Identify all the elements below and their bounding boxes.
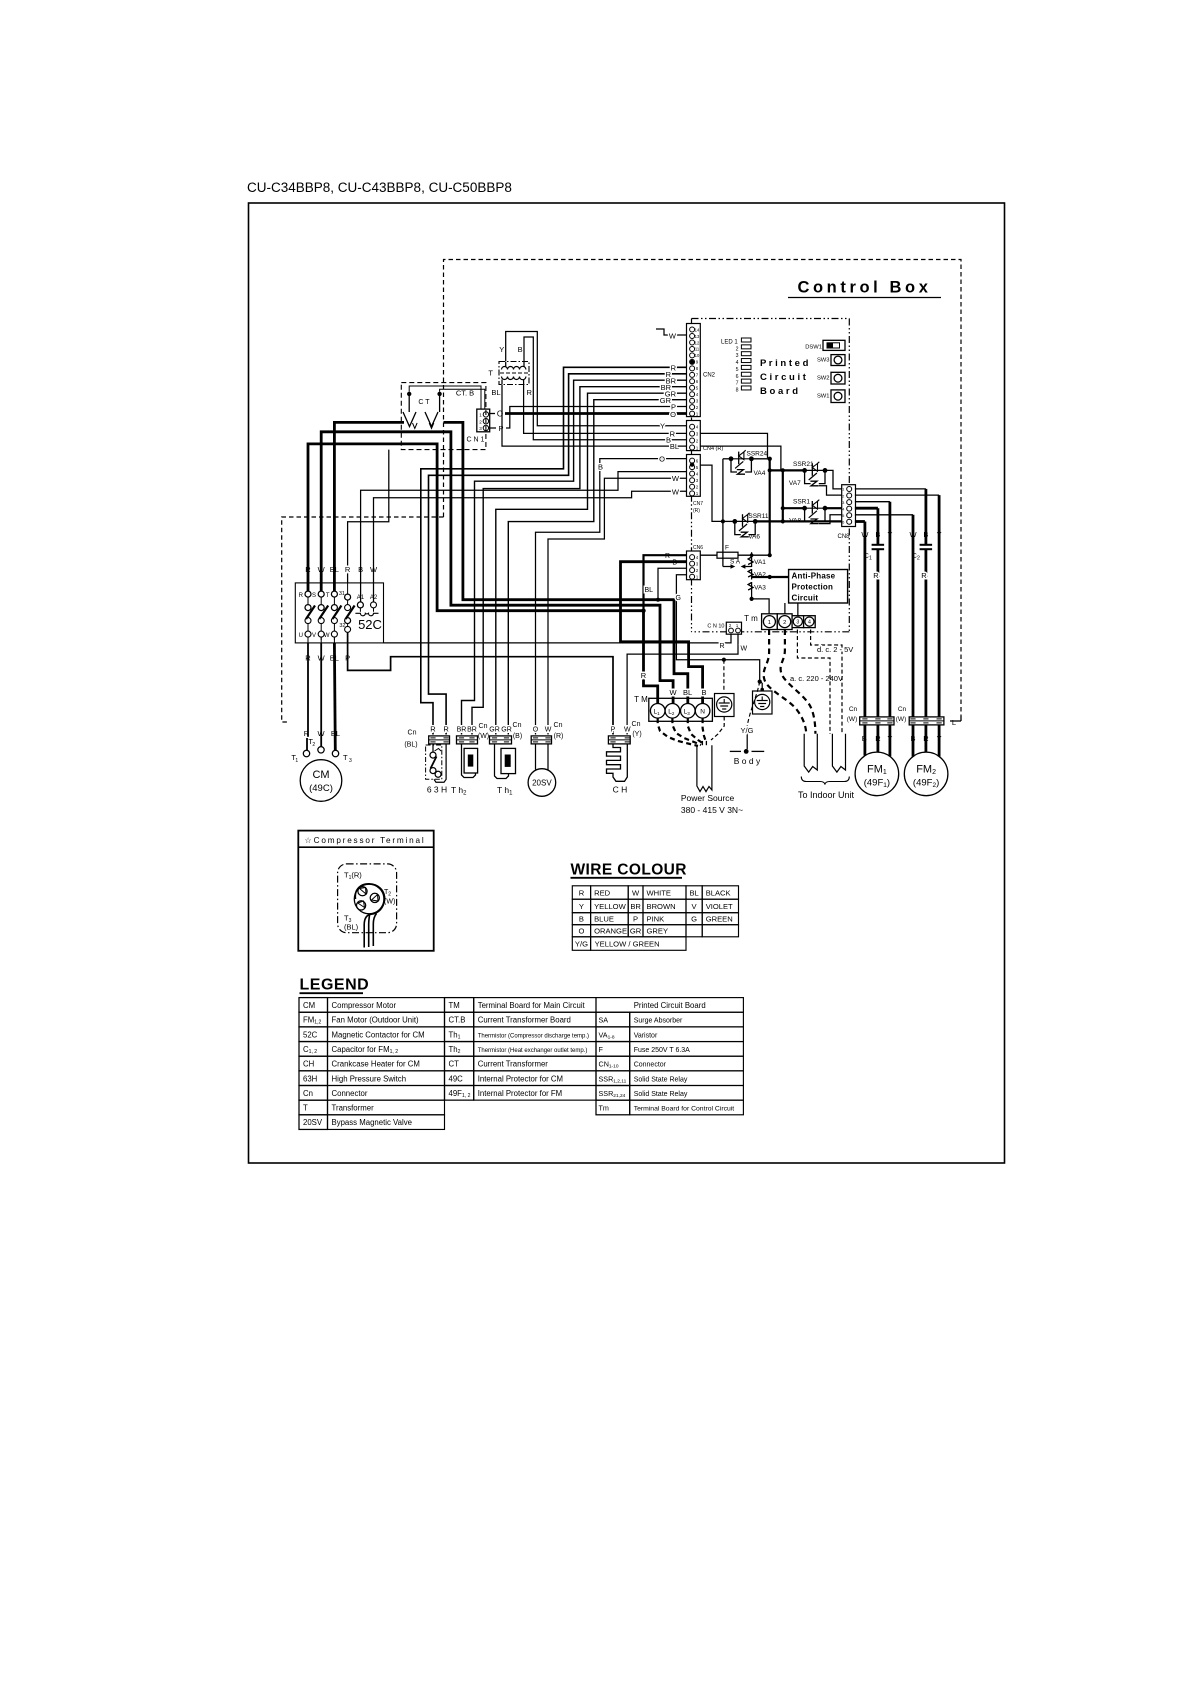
compressor motor CM bbox=[291, 737, 352, 801]
wire B1 upper bbox=[877, 508, 880, 545]
wire CN7 pin5 to SSR11 bbox=[700, 465, 725, 523]
52C bottom wire labels bbox=[305, 654, 350, 663]
svg-text:(W): (W) bbox=[384, 899, 395, 906]
svg-text:VIOLET: VIOLET bbox=[706, 902, 733, 911]
svg-text:T m: T m bbox=[744, 614, 758, 623]
svg-text:W: W bbox=[324, 633, 330, 639]
svg-text:B o a r d: B o a r d bbox=[760, 386, 798, 397]
varistor VA2 bbox=[748, 569, 766, 580]
wire SSR1 varistor to CN8 pin5 bbox=[819, 515, 842, 524]
svg-text:7: 7 bbox=[736, 381, 739, 387]
svg-text:B: B bbox=[598, 462, 603, 471]
wire BR CN2 pin6 to Th2 bbox=[462, 377, 687, 735]
svg-text:ORANGE: ORANGE bbox=[594, 927, 627, 936]
wire CN4 pin1 to SSR bus2 bbox=[700, 446, 781, 470]
svg-text:W: W bbox=[741, 646, 748, 653]
svg-text:GR: GR bbox=[501, 727, 512, 734]
body earth symbol bbox=[730, 749, 764, 766]
wire B2 upper bbox=[925, 489, 928, 545]
svg-text:Y: Y bbox=[499, 345, 504, 354]
wire 52C U to CM T1 bbox=[307, 637, 308, 750]
svg-text:To Indoor Unit: To Indoor Unit bbox=[798, 790, 855, 800]
svg-text:BR: BR bbox=[467, 727, 477, 734]
wire B1 lower R bbox=[873, 549, 879, 717]
wire CN8 pin3 to FM1 Y bbox=[855, 501, 890, 503]
svg-text:20SV: 20SV bbox=[532, 779, 552, 788]
svg-text:V: V bbox=[312, 633, 316, 639]
svg-text:31: 31 bbox=[339, 591, 345, 597]
svg-text:O: O bbox=[533, 727, 539, 734]
svg-text:6: 6 bbox=[736, 374, 739, 380]
svg-text:3: 3 bbox=[349, 758, 352, 764]
svg-text:☆Compressor Terminal: ☆Compressor Terminal bbox=[305, 836, 426, 845]
svg-text:R: R bbox=[665, 553, 670, 560]
wire O CN7 pin6 to 20SV bbox=[536, 455, 687, 735]
svg-text:C N 10: C N 10 bbox=[707, 624, 724, 630]
wire R branch to CN6 pin4 bbox=[641, 555, 686, 613]
svg-text:SSR1: SSR1 bbox=[793, 499, 810, 506]
wire bus to SSR21 bbox=[770, 469, 805, 471]
power source dashed leads bbox=[658, 717, 725, 747]
svg-text:8: 8 bbox=[736, 387, 739, 393]
svg-text:F: F bbox=[725, 545, 729, 552]
wire CN8 pin2 to FM2 Y bbox=[855, 494, 939, 496]
svg-text:Cn: Cn bbox=[554, 722, 563, 729]
svg-text:SW2: SW2 bbox=[817, 376, 830, 382]
svg-text:GREY: GREY bbox=[647, 927, 669, 936]
svg-text:(R): (R) bbox=[693, 508, 700, 514]
svg-text:Terminal Board for Control Cir: Terminal Board for Control Circuit bbox=[634, 1106, 735, 1113]
svg-text:CN2: CN2 bbox=[703, 373, 716, 379]
solid state relay SSR21 with varistor VA7 bbox=[789, 461, 827, 487]
svg-text:W: W bbox=[624, 727, 631, 734]
svg-text:High Pressure Switch: High Pressure Switch bbox=[332, 1074, 407, 1083]
wire CN8 pin5 to FM2 W bbox=[855, 514, 913, 516]
solid state relay SSR1 with varistor VA8 bbox=[789, 499, 827, 525]
svg-text:SSR24: SSR24 bbox=[747, 450, 768, 457]
wire BL phase TM L3 to CT to 52C bbox=[334, 422, 687, 703]
terminal board TM bbox=[634, 695, 712, 721]
fuse F bbox=[700, 545, 769, 559]
svg-text:VA3: VA3 bbox=[754, 585, 766, 592]
wire earth2 stub bbox=[760, 682, 763, 691]
switch SW2 bbox=[817, 372, 845, 384]
power source cable sheath bbox=[697, 741, 712, 792]
TM wire labels bbox=[641, 671, 707, 697]
svg-text:GR: GR bbox=[489, 727, 500, 734]
svg-text:B o d y: B o d y bbox=[734, 756, 761, 766]
svg-text:BL: BL bbox=[689, 888, 698, 897]
svg-text:Power Source: Power Source bbox=[681, 793, 735, 803]
svg-text:GR: GR bbox=[660, 396, 672, 405]
anti-phase protection circuit box bbox=[789, 570, 848, 604]
svg-text:Capacitor for FM1, 2: Capacitor for FM1, 2 bbox=[332, 1045, 399, 1055]
svg-text:3: 3 bbox=[796, 620, 799, 626]
wire CN6 pin2 BL tap bbox=[644, 568, 686, 602]
svg-text:P: P bbox=[671, 403, 676, 412]
wire CN8 pin6 to FM1 W bbox=[855, 520, 865, 523]
high pressure switch 63H bbox=[426, 744, 448, 795]
svg-text:W: W bbox=[545, 727, 552, 734]
svg-text:T: T bbox=[488, 369, 493, 378]
wire SSR11 to CN8 pin6 bus bbox=[755, 520, 842, 522]
svg-text:(Y): (Y) bbox=[632, 731, 641, 738]
wire P CN1 to CN2 pin2 bbox=[490, 403, 687, 434]
terminal board Tm bbox=[744, 614, 815, 630]
svg-text:CM: CM bbox=[312, 769, 329, 781]
svg-text:P: P bbox=[633, 915, 638, 924]
svg-text:(BL): (BL) bbox=[404, 742, 417, 749]
svg-text:(BL): (BL) bbox=[344, 923, 359, 932]
svg-text:(W): (W) bbox=[896, 716, 906, 723]
svg-text:Cn: Cn bbox=[513, 722, 522, 729]
earth1 dashed lead bbox=[723, 660, 725, 693]
svg-text:R: R bbox=[579, 888, 585, 897]
svg-text:CT: CT bbox=[449, 1060, 460, 1069]
svg-text:12: 12 bbox=[695, 340, 700, 345]
label to indoor unit bbox=[798, 790, 855, 800]
svg-text:T: T bbox=[343, 753, 348, 762]
varistor VA1 bbox=[748, 557, 766, 568]
svg-text:B: B bbox=[672, 560, 677, 567]
wire CN8 pin4 to FM1 B bbox=[855, 507, 878, 510]
svg-text:SSR11: SSR11 bbox=[748, 513, 768, 520]
svg-text:a. c. 220 - 240V: a. c. 220 - 240V bbox=[790, 674, 843, 683]
wire BL transformer to CN4 pin1 bbox=[502, 385, 687, 451]
52C top wire labels bbox=[305, 565, 378, 574]
svg-text:(W): (W) bbox=[847, 716, 857, 723]
switch SW1 bbox=[817, 390, 845, 403]
svg-text:4: 4 bbox=[736, 360, 739, 366]
svg-text:CN4 (R): CN4 (R) bbox=[703, 446, 723, 452]
svg-text:Printed Circuit Board: Printed Circuit Board bbox=[634, 1001, 706, 1010]
svg-text:R: R bbox=[527, 388, 533, 397]
surge absorber SA bbox=[723, 559, 752, 569]
connector Cn(W) for FM1 bbox=[847, 706, 894, 725]
svg-text:P: P bbox=[498, 424, 503, 433]
svg-text:d. c. 2 - 5V: d. c. 2 - 5V bbox=[817, 645, 853, 654]
svg-text:Cn: Cn bbox=[632, 721, 641, 728]
FM2 lead wires bbox=[913, 725, 939, 757]
solid state relay SSR11 with varistor VA6 bbox=[732, 513, 768, 541]
capacitor C1 bbox=[864, 545, 885, 562]
wire R 52C aux to CT.B bbox=[348, 450, 389, 583]
svg-text:P: P bbox=[611, 727, 616, 734]
fan motor FM1 bbox=[855, 752, 899, 796]
thermistor Th2 bbox=[451, 723, 489, 797]
wire CN10 pin2 W to CH bbox=[627, 634, 747, 734]
wire SSR21 out to CN8 pin1 bbox=[825, 470, 842, 489]
wire bus3 to CN8 pin4 bbox=[783, 507, 842, 509]
connector CN7 bbox=[687, 455, 704, 515]
svg-text:380 - 415 V 3N~: 380 - 415 V 3N~ bbox=[681, 805, 743, 815]
dc 2-5V dashed wires bbox=[797, 630, 842, 735]
wire CN6 pin1 G to earth line bbox=[676, 575, 762, 684]
svg-text:(49F1): (49F1) bbox=[864, 778, 890, 790]
svg-text:VA1: VA1 bbox=[754, 559, 766, 566]
svg-text:P r i n t e d: P r i n t e d bbox=[760, 358, 809, 369]
svg-text:VA4: VA4 bbox=[754, 470, 766, 477]
svg-text:Cn: Cn bbox=[303, 1089, 313, 1098]
wire SSR21 varistor to CN8 pin2 bbox=[819, 486, 842, 495]
label ac 220-240V bbox=[790, 674, 843, 683]
wire anti-phase to Tm2 bbox=[785, 603, 798, 616]
wire W1 vertical bbox=[864, 522, 867, 717]
svg-text:BL: BL bbox=[683, 688, 692, 697]
wire R CN2 pin8 to 63H bbox=[421, 364, 687, 735]
SSR bus3 bbox=[781, 468, 785, 523]
svg-text:C H: C H bbox=[613, 785, 628, 795]
svg-text:1: 1 bbox=[295, 758, 298, 764]
SSR bus2 vertical bbox=[751, 457, 772, 558]
svg-text:GR: GR bbox=[630, 927, 642, 936]
svg-text:SW3: SW3 bbox=[817, 358, 830, 364]
svg-text:C N 1: C N 1 bbox=[467, 437, 485, 444]
svg-text:2: 2 bbox=[783, 620, 786, 626]
wire 52C V to CM T2 bbox=[320, 637, 322, 747]
svg-text:T1(R): T1(R) bbox=[344, 871, 362, 882]
svg-text:63H: 63H bbox=[303, 1074, 317, 1083]
svg-text:CN7: CN7 bbox=[693, 501, 703, 507]
varistor VA3 bbox=[748, 582, 766, 593]
connector Cn(W) for FM2 bbox=[896, 706, 944, 725]
label Y/G bbox=[741, 726, 754, 735]
CN6 R B labels bbox=[665, 553, 677, 567]
svg-text:CN8: CN8 bbox=[837, 534, 850, 540]
svg-text:(49F2): (49F2) bbox=[913, 778, 939, 790]
outer border frame bbox=[249, 203, 1005, 1163]
svg-text:Fan Motor (Outdoor Unit): Fan Motor (Outdoor Unit) bbox=[332, 1016, 419, 1025]
svg-text:BR: BR bbox=[457, 727, 467, 734]
svg-text:C i r c u i t: C i r c u i t bbox=[760, 372, 807, 383]
svg-text:Transformer: Transformer bbox=[332, 1104, 375, 1113]
svg-text:N: N bbox=[700, 709, 705, 716]
FM1 lead wires bbox=[865, 725, 890, 757]
label dc 2-5V bbox=[817, 645, 853, 654]
svg-text:Connector: Connector bbox=[634, 1062, 667, 1069]
wire Y2 vertical bbox=[938, 495, 941, 717]
svg-text:T: T bbox=[303, 1104, 308, 1113]
svg-text:R: R bbox=[719, 643, 724, 650]
legend table bbox=[299, 977, 743, 1130]
svg-text:RED: RED bbox=[594, 888, 611, 897]
svg-text:SA: SA bbox=[599, 1016, 609, 1025]
fan motor FM2 bbox=[904, 752, 948, 796]
svg-text:W: W bbox=[672, 474, 680, 483]
wire CN4 pin3 to SSR bus bbox=[700, 433, 767, 458]
svg-text:SSR21: SSR21 bbox=[793, 461, 814, 468]
svg-text:O: O bbox=[659, 455, 665, 464]
switch SW3 bbox=[817, 355, 845, 366]
power source label bbox=[681, 793, 743, 815]
svg-text:LED 1: LED 1 bbox=[721, 340, 738, 346]
svg-text:YELLOW: YELLOW bbox=[594, 902, 626, 911]
svg-text:BR: BR bbox=[630, 902, 641, 911]
svg-text:CU-C34BBP8, CU-C43BBP8, CU-C50: CU-C34BBP8, CU-C43BBP8, CU-C50BBP8 bbox=[247, 180, 512, 195]
ac 220-240V dashed wires bbox=[764, 630, 816, 734]
current transformer board CT.B dashed box bbox=[401, 383, 486, 450]
svg-text:G: G bbox=[676, 595, 681, 602]
63H labels bbox=[430, 725, 449, 734]
svg-text:L: L bbox=[952, 718, 956, 727]
svg-text:T M: T M bbox=[634, 695, 648, 704]
svg-text:SW1: SW1 bbox=[817, 394, 830, 400]
svg-text:Y/G: Y/G bbox=[741, 726, 754, 735]
svg-text:Magnetic Contactor for CM: Magnetic Contactor for CM bbox=[332, 1030, 425, 1039]
wire Y transformer to CN4 pin4 bbox=[506, 332, 687, 431]
svg-text:BL: BL bbox=[491, 388, 500, 397]
wire W2 vertical bbox=[912, 515, 915, 717]
svg-text:2: 2 bbox=[312, 742, 315, 748]
svg-text:Compressor Motor: Compressor Motor bbox=[332, 1001, 397, 1010]
svg-text:BL: BL bbox=[670, 442, 679, 451]
svg-text:R: R bbox=[873, 571, 879, 580]
wire BR CN2 pin5 to Th2 bbox=[472, 383, 687, 735]
svg-text:R: R bbox=[921, 571, 927, 580]
svg-text:W: W bbox=[632, 888, 640, 897]
svg-text:4: 4 bbox=[808, 620, 811, 626]
svg-text:Circuit: Circuit bbox=[792, 593, 819, 602]
svg-text:S: S bbox=[312, 593, 316, 599]
svg-text:W: W bbox=[669, 332, 677, 341]
svg-text:O: O bbox=[578, 927, 584, 936]
svg-text:BROWN: BROWN bbox=[647, 902, 676, 911]
svg-text:20SV: 20SV bbox=[303, 1118, 323, 1127]
bypass magnetic valve 20SV bbox=[528, 722, 563, 796]
control box dashed border bbox=[282, 260, 961, 723]
svg-text:13: 13 bbox=[695, 334, 700, 339]
wire GR CN2 pin3 to Th1 bbox=[508, 396, 686, 735]
svg-text:Internal Protector for FM: Internal Protector for FM bbox=[478, 1089, 563, 1098]
svg-text:Current Transformer: Current Transformer bbox=[478, 1060, 549, 1069]
svg-text:PINK: PINK bbox=[647, 915, 665, 924]
svg-text:R: R bbox=[670, 429, 676, 438]
svg-text:W: W bbox=[670, 688, 678, 697]
svg-text:11: 11 bbox=[695, 347, 700, 352]
svg-text:Y: Y bbox=[579, 902, 584, 911]
wire O CN1 to CN2 pin1 bbox=[490, 410, 687, 420]
svg-text:B: B bbox=[579, 915, 584, 924]
earth terminal 1 bbox=[715, 694, 735, 717]
label L near border bbox=[952, 718, 956, 727]
wire colour table bbox=[571, 862, 739, 951]
title text bbox=[247, 180, 512, 195]
control box title bbox=[788, 279, 941, 298]
svg-text:CH: CH bbox=[303, 1060, 314, 1069]
svg-text:CT.B: CT.B bbox=[449, 1016, 466, 1025]
wire GR CN2 pin4 to Th1 bbox=[496, 390, 687, 735]
connector CN1 bbox=[467, 409, 490, 443]
wire CN8 pin1 to FM2 B bbox=[855, 488, 926, 490]
svg-text:GREEN: GREEN bbox=[706, 915, 733, 924]
wire W CN7 pin1 to 52C coil bbox=[374, 487, 687, 602]
svg-text:VA7: VA7 bbox=[789, 480, 801, 487]
capacitor C2 bbox=[912, 545, 933, 562]
wire R phase TM L1 to 52C bbox=[308, 444, 658, 704]
wire 52C W to CM T3 bbox=[333, 637, 337, 750]
connector CN10 bbox=[707, 622, 741, 634]
svg-text:B: B bbox=[701, 688, 706, 697]
svg-text:6 3 H: 6 3 H bbox=[427, 785, 447, 795]
svg-text:1: 1 bbox=[768, 620, 771, 626]
wire CN2 pin13 W stub bbox=[656, 329, 687, 341]
compressor terminal inset bbox=[298, 831, 433, 951]
VA chain bottom bbox=[750, 593, 770, 614]
svg-text:B: B bbox=[518, 345, 523, 354]
svg-text:(49C): (49C) bbox=[309, 783, 333, 794]
fan motor lead labels bbox=[862, 734, 942, 743]
wire W CN7 pin3 to 20SV bbox=[548, 474, 687, 734]
svg-text:Control Box: Control Box bbox=[797, 279, 931, 297]
wire R CN2 pin7 to 63H bbox=[429, 370, 687, 735]
svg-text:BLACK: BLACK bbox=[706, 888, 731, 897]
wire Y/G to body bbox=[747, 682, 760, 750]
svg-text:Solid State Relay: Solid State Relay bbox=[634, 1091, 688, 1098]
svg-text:Y: Y bbox=[660, 422, 665, 431]
svg-text:U: U bbox=[299, 633, 303, 639]
connector Cn(BL) for 63H bbox=[404, 730, 449, 749]
PCB text Printed Circuit Board bbox=[760, 358, 809, 397]
svg-text:Cn: Cn bbox=[849, 706, 858, 713]
svg-text:Tm: Tm bbox=[599, 1104, 609, 1113]
wire to anti-phase box bbox=[752, 575, 789, 579]
svg-text:52C: 52C bbox=[358, 617, 382, 632]
svg-text:CT. B: CT. B bbox=[456, 389, 474, 398]
svg-text:Internal Protector for CM: Internal Protector for CM bbox=[478, 1074, 563, 1083]
svg-text:Terminal Board for Main Circui: Terminal Board for Main Circuit bbox=[478, 1001, 586, 1010]
wire W phase TM L2 to 52C bbox=[321, 432, 673, 704]
svg-text:Anti-Phase: Anti-Phase bbox=[792, 571, 836, 580]
svg-text:T: T bbox=[326, 593, 330, 599]
svg-text:(R): (R) bbox=[554, 733, 564, 740]
svg-text:(B): (B) bbox=[513, 733, 522, 740]
svg-text:Current Transformer Board: Current Transformer Board bbox=[478, 1016, 571, 1025]
svg-text:WIRE COLOUR: WIRE COLOUR bbox=[571, 862, 687, 879]
svg-text:Cn: Cn bbox=[898, 706, 907, 713]
fan wire labels top bbox=[861, 530, 941, 539]
svg-text:2: 2 bbox=[736, 346, 739, 352]
earth terminal 2 Y/G bbox=[753, 688, 773, 714]
svg-text:5: 5 bbox=[736, 367, 739, 373]
svg-text:R: R bbox=[671, 364, 677, 373]
connector CN2 bbox=[687, 324, 716, 417]
wire R transformer to CN4 pin3 bbox=[524, 385, 687, 438]
svg-text:Fuse 250V T 6.3A: Fuse 250V T 6.3A bbox=[634, 1047, 690, 1054]
svg-text:Crankcase Heater for CM: Crankcase Heater for CM bbox=[332, 1060, 420, 1069]
wire B2 lower R bbox=[921, 549, 927, 717]
to indoor unit brace bbox=[801, 777, 849, 785]
wire CN10 pin1 R to 52C aux bbox=[384, 634, 732, 650]
svg-text:Connector: Connector bbox=[332, 1089, 368, 1098]
wire B transformer to CN4 pin2 bbox=[524, 337, 687, 445]
svg-text:BL: BL bbox=[644, 587, 653, 594]
crankcase heater CH bbox=[607, 721, 642, 795]
svg-text:CM: CM bbox=[303, 1001, 315, 1010]
svg-text:10: 10 bbox=[695, 353, 700, 358]
svg-text:Thermistor (Heat exchanger out: Thermistor (Heat exchanger outlet temp.) bbox=[478, 1048, 588, 1054]
svg-text:Varistor: Varistor bbox=[634, 1032, 658, 1039]
svg-text:VA6: VA6 bbox=[748, 534, 760, 541]
svg-text:R: R bbox=[443, 725, 449, 734]
connector CN8 bbox=[837, 485, 855, 540]
svg-text:Surge Absorber: Surge Absorber bbox=[634, 1018, 683, 1025]
svg-text:DSW1: DSW1 bbox=[805, 345, 822, 351]
svg-text:52C: 52C bbox=[303, 1030, 318, 1039]
dip switch DSW1 bbox=[805, 340, 845, 350]
SSR bus1 vertical bbox=[723, 459, 735, 567]
VA chain top link bbox=[750, 552, 754, 557]
printed circuit board outline bbox=[692, 319, 850, 632]
